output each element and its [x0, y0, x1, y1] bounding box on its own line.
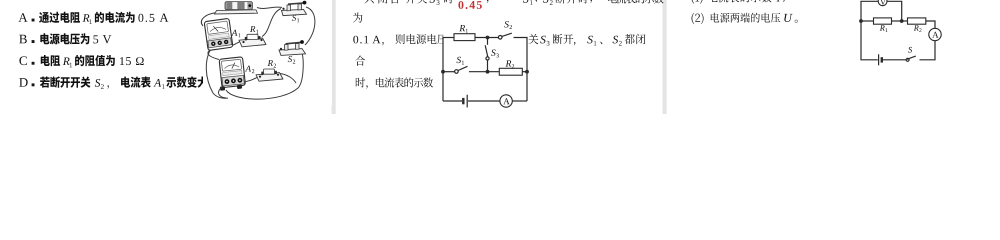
wire R1 to S1	[262, 9, 281, 37]
resistor R2	[499, 68, 522, 75]
label text S2	[504, 21, 509, 27]
wire bottom left	[443, 100, 462, 102]
label text A2 (illustration)	[245, 66, 251, 72]
voltmeter branch wires	[861, 1, 878, 21]
wire switch to battery	[883, 59, 906, 61]
node junction top	[486, 36, 490, 40]
wire to right edge	[926, 21, 935, 28]
wire R2 right lead	[280, 74, 296, 84]
resistor R1	[454, 34, 475, 41]
wire R2 to right edge	[522, 71, 527, 73]
node middle	[900, 19, 904, 23]
column divider right	[663, 0, 667, 114]
label text S1	[457, 57, 462, 63]
wire battery to left edge	[861, 21, 878, 60]
wire between resistors	[892, 20, 908, 22]
label text R2 (right)	[914, 25, 919, 30]
label text S2 (illustration)	[288, 56, 292, 62]
label text S (right)	[908, 47, 912, 53]
red handwritten answer 0.45	[458, 1, 481, 9]
wire battery to A1	[201, 13, 217, 27]
battery holder tray	[215, 10, 258, 14]
wire top left	[443, 37, 455, 39]
wire A2 bottom swoosh to S2	[226, 53, 303, 99]
right column question (1) clipped line	[692, 0, 703, 4]
wire battery to ammeter	[468, 100, 500, 102]
resistor R2 (right circuit)	[908, 18, 926, 24]
battery cell	[462, 98, 464, 104]
node left	[859, 19, 863, 23]
switch S2 (illustration)	[279, 49, 306, 56]
resistor R1 (illustration)	[239, 38, 266, 47]
node junction S3 bottom	[486, 70, 490, 74]
ammeter A	[500, 95, 512, 107]
label text R1 (illustration)	[250, 26, 255, 32]
ammeter A2 bottom wire curl	[219, 87, 226, 98]
experiment illustration backdrop	[203, 0, 332, 106]
wire S1 to S2 big curve	[305, 7, 315, 45]
wire left edge	[442, 38, 444, 102]
ammeter A (right circuit)	[929, 28, 941, 40]
node junction right middle	[525, 70, 529, 74]
wire middle left	[443, 71, 455, 73]
battery cells	[225, 2, 252, 10]
wire R1 to junction	[475, 37, 498, 39]
wire A2 to R2	[241, 77, 259, 83]
option B text	[19, 35, 27, 44]
switch S1 (illustration)	[282, 9, 307, 15]
label text R2 (illustration)	[268, 60, 273, 66]
wire A1 to R1	[221, 41, 242, 49]
right column question (2)	[692, 13, 704, 24]
label text R1	[459, 25, 465, 31]
wire ammeter to corner	[512, 100, 527, 102]
switch S1	[455, 70, 459, 74]
switch S2	[498, 36, 502, 40]
middle schematic white backdrop	[444, 30, 528, 108]
switch S (right circuit)	[907, 56, 916, 59]
ammeter A1 (illustration)	[204, 18, 233, 50]
column divider left	[332, 0, 336, 114]
label text A1 (illustration)	[231, 30, 237, 36]
label text A (right ammeter)	[932, 32, 938, 38]
wire right edge lower	[920, 41, 936, 60]
resistor R2 (illustration)	[256, 73, 283, 82]
wire A1 down left side of A2	[206, 50, 228, 99]
label text S3	[491, 50, 496, 56]
label text R1 (right)	[880, 25, 885, 30]
option D text	[19, 78, 28, 87]
label text S1 (illustration)	[292, 15, 296, 21]
node junction left middle	[441, 70, 445, 74]
switch S3 branch	[487, 38, 489, 45]
label text R2	[506, 60, 512, 66]
battery cell (right circuit)	[878, 54, 880, 65]
wire main left	[861, 20, 874, 22]
resistor R1 (right circuit)	[874, 18, 892, 24]
wire A1 to A2	[208, 49, 219, 60]
label text V (voltmeter)	[880, 0, 885, 5]
middle column first (clipped) text line	[364, 0, 373, 3]
wire S1 to S3 junction	[469, 71, 499, 73]
ammeter A2 feet	[220, 86, 225, 91]
option C text	[19, 56, 27, 65]
ammeter A2 (illustration)	[219, 57, 245, 88]
wire S2 to corner	[514, 38, 528, 102]
wire battery to S1	[257, 7, 282, 8]
voltmeter V	[878, 0, 887, 6]
label text A (ammeter)	[503, 98, 509, 104]
option A text	[18, 13, 27, 22]
middle column text	[353, 12, 362, 22]
